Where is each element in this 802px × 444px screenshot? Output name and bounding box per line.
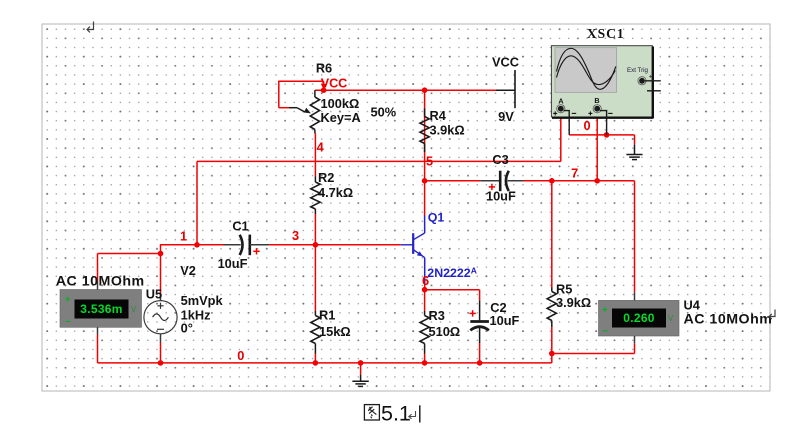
label 50%: [371, 105, 397, 120]
svg-text:−: −: [65, 317, 71, 328]
svg-text:100kΩ: 100kΩ: [321, 96, 360, 111]
svg-text:AC 10MOhm: AC 10MOhm: [684, 311, 773, 327]
junction node 5 / C3: [422, 178, 428, 184]
svg-text:3.9kΩ: 3.9kΩ: [556, 295, 591, 310]
svg-text:0.260: 0.260: [623, 311, 655, 325]
label V2: [180, 263, 196, 278]
svg-text:510Ω: 510Ω: [429, 324, 461, 339]
value 10uF (C1): [218, 256, 248, 271]
wire scope channel A to node 1: [197, 111, 561, 161]
wire node 1 row to C1: [161, 244, 224, 246]
label C3: [492, 152, 508, 167]
wire scope A minus lead: [564, 111, 570, 135]
wire R4/collector column (net 5): [424, 90, 426, 215]
label XSC1: [587, 26, 625, 41]
value 1kHz: [181, 308, 211, 323]
svg-text:7: 7: [571, 166, 578, 181]
svg-text:3.536m: 3.536m: [80, 302, 123, 316]
junction node 6: [422, 287, 428, 293]
svg-text:VCC: VCC: [321, 77, 348, 91]
svg-text:XSC1: XSC1: [587, 26, 625, 41]
label R5: [556, 282, 572, 297]
svg-text:VCC: VCC: [492, 54, 519, 69]
wire node 7 row C3 to scope B and U4: [425, 180, 635, 182]
label Key=A: [321, 110, 361, 125]
value 15kOhm: [319, 324, 351, 339]
wire node 1 vertical: [196, 161, 198, 244]
svg-text:+: +: [602, 305, 608, 316]
label R3: [429, 308, 445, 323]
label R6: [316, 60, 332, 75]
junction R3 bottom on rail: [422, 360, 428, 366]
wire C1 to node 3 to Q1 base: [269, 244, 401, 246]
svg-text:15kΩ: 15kΩ: [319, 324, 351, 339]
svg-text:AC 10MOhm: AC 10MOhm: [56, 273, 145, 289]
capacitor C1: [224, 235, 270, 256]
wire bottom ground rail (net 0): [98, 335, 552, 363]
svg-text:5: 5: [426, 153, 433, 168]
wire V2 top vertical: [160, 244, 162, 295]
ground (bottom rail): [352, 363, 368, 387]
label U5: [146, 287, 162, 302]
svg-text:0°: 0°: [181, 320, 193, 335]
junction U5/V2: [158, 251, 164, 257]
node label 0 (scope): [583, 118, 590, 133]
junction V2 bottom on rail: [158, 360, 164, 366]
label 9V: [498, 109, 514, 124]
wire U4 top vertical: [634, 181, 636, 292]
node label 0 (bottom rail): [237, 348, 244, 363]
caption character TU (figure): [364, 405, 379, 420]
svg-text:10uF: 10uF: [490, 313, 520, 328]
svg-text:R4: R4: [430, 108, 447, 123]
node label 3: [292, 228, 299, 243]
svg-text:V: V: [131, 305, 137, 314]
label VCC (black): [492, 54, 519, 69]
svg-text:2N2222A: 2N2222A: [427, 265, 477, 280]
label 2N2222A: [427, 265, 477, 280]
wire emitter node 6 row to C2: [425, 289, 480, 291]
value 4.7kOhm: [318, 185, 353, 200]
svg-text:5.1: 5.1: [381, 401, 411, 425]
label Q1: [428, 211, 445, 225]
VCC power symbol 9V: [496, 70, 515, 108]
ground (scope): [626, 145, 642, 160]
svg-text:10uF: 10uF: [486, 189, 516, 204]
value 3.9kOhm (R5): [556, 295, 591, 310]
C2 polarity plus: [469, 310, 475, 316]
svg-text:4: 4: [317, 140, 325, 155]
junction node 1: [194, 242, 200, 248]
svg-text:−: −: [602, 326, 608, 337]
value 10uF (C2): [490, 313, 520, 328]
wire U5 plus to V2: [98, 254, 161, 282]
svg-text:5mVpk: 5mVpk: [181, 293, 224, 308]
wire scope B vertical: [596, 111, 598, 180]
potentiometer R6: [289, 90, 320, 133]
wire scope ground net 0: [569, 135, 634, 145]
svg-text:0: 0: [237, 348, 244, 363]
label AC 10MOhm (U5): [56, 273, 145, 289]
resistor R4: [420, 108, 429, 152]
svg-text:4.7kΩ: 4.7kΩ: [318, 185, 353, 200]
junction node 3: [313, 242, 319, 248]
svg-text:1: 1: [180, 229, 187, 244]
svg-text:9V: 9V: [498, 109, 514, 124]
svg-text:50%: 50%: [371, 105, 397, 120]
wire U4 bottom to R5 bottom: [552, 343, 635, 353]
node label 1: [180, 229, 187, 244]
label R4: [430, 108, 447, 123]
svg-text:C3: C3: [492, 152, 508, 167]
svg-text:B: B: [594, 96, 599, 105]
wire pot bottom to R2 (net 4): [314, 134, 316, 177]
junction scope B minus: [604, 132, 610, 138]
svg-text:R6: R6: [316, 60, 332, 75]
caption text cursor: [419, 405, 421, 422]
label AC 10MOhm (U4): [684, 311, 773, 327]
resistor R5: [547, 181, 556, 354]
svg-text:U4: U4: [684, 297, 701, 312]
transistor Q1 2N2222A: [401, 216, 425, 290]
label U4: [684, 297, 701, 312]
junction C2 bottom on rail: [477, 360, 483, 366]
svg-text:V2: V2: [180, 263, 196, 278]
svg-text:3.9kΩ: 3.9kΩ: [430, 122, 465, 137]
svg-text:6: 6: [422, 273, 429, 288]
svg-text:Ext Trig: Ext Trig: [627, 67, 649, 74]
capacitor C3: [480, 171, 523, 192]
wire R2 bottom to node 3: [314, 214, 316, 245]
wire scope B minus lead: [600, 111, 607, 135]
AC source V2: [144, 295, 177, 363]
svg-text:R1: R1: [319, 308, 335, 323]
svg-text:Key=A: Key=A: [321, 110, 361, 125]
wire potentiometer wiper feedback loop: [279, 81, 324, 108]
oscilloscope XSC1: [551, 46, 660, 118]
caption return mark: [409, 411, 416, 419]
voltmeter U5: [60, 282, 142, 335]
junction pot top / VCC rail: [321, 87, 327, 93]
resistor R1: [311, 245, 320, 363]
svg-text:+: +: [649, 74, 653, 81]
junction scope B / node 7: [594, 178, 600, 184]
value 10uF (C3): [486, 189, 516, 204]
svg-text:R2: R2: [318, 170, 334, 185]
node label 6: [422, 273, 429, 288]
C1 polarity plus: [253, 248, 259, 254]
svg-text:R3: R3: [429, 308, 445, 323]
junction ground stem on rail: [358, 360, 364, 366]
svg-text:+: +: [65, 294, 71, 305]
resistor R2: [311, 177, 320, 215]
label R1: [319, 308, 335, 323]
svg-text:U5: U5: [146, 287, 162, 302]
junction R5 bottom: [549, 351, 555, 357]
label C2: [490, 300, 506, 315]
value 3.9kOhm (R4): [430, 122, 465, 137]
label C1: [232, 219, 248, 234]
svg-text:3: 3: [292, 228, 299, 243]
caption text 5.1: [381, 401, 411, 425]
wire VCC rail (net VCC): [315, 89, 496, 91]
value 5mVpk: [181, 293, 224, 308]
net label VCC (red) at pot: [321, 77, 348, 91]
voltmeter U4: [599, 292, 680, 343]
capacitor C2 (polarized): [470, 290, 489, 363]
C3 polarity plus: [489, 184, 495, 190]
paragraph mark right: [769, 310, 775, 320]
svg-text:C1: C1: [232, 219, 248, 234]
value 0 deg: [181, 320, 193, 335]
svg-text:V: V: [668, 314, 674, 323]
node label 4: [317, 140, 325, 155]
value 100kOhm: [321, 96, 360, 111]
label R2: [318, 170, 334, 185]
svg-text:10uF: 10uF: [218, 256, 248, 271]
resistor R3: [420, 290, 429, 363]
junction R5 top: [549, 178, 555, 184]
svg-text:0: 0: [583, 118, 590, 133]
node label 7: [571, 166, 578, 181]
node label 5: [426, 153, 433, 168]
junction R4 top: [422, 87, 428, 93]
value 510Ohm: [429, 324, 461, 339]
junction R1 bottom on rail: [313, 360, 319, 366]
paragraph mark top-left: [87, 22, 94, 33]
svg-text:Q1: Q1: [428, 211, 445, 225]
